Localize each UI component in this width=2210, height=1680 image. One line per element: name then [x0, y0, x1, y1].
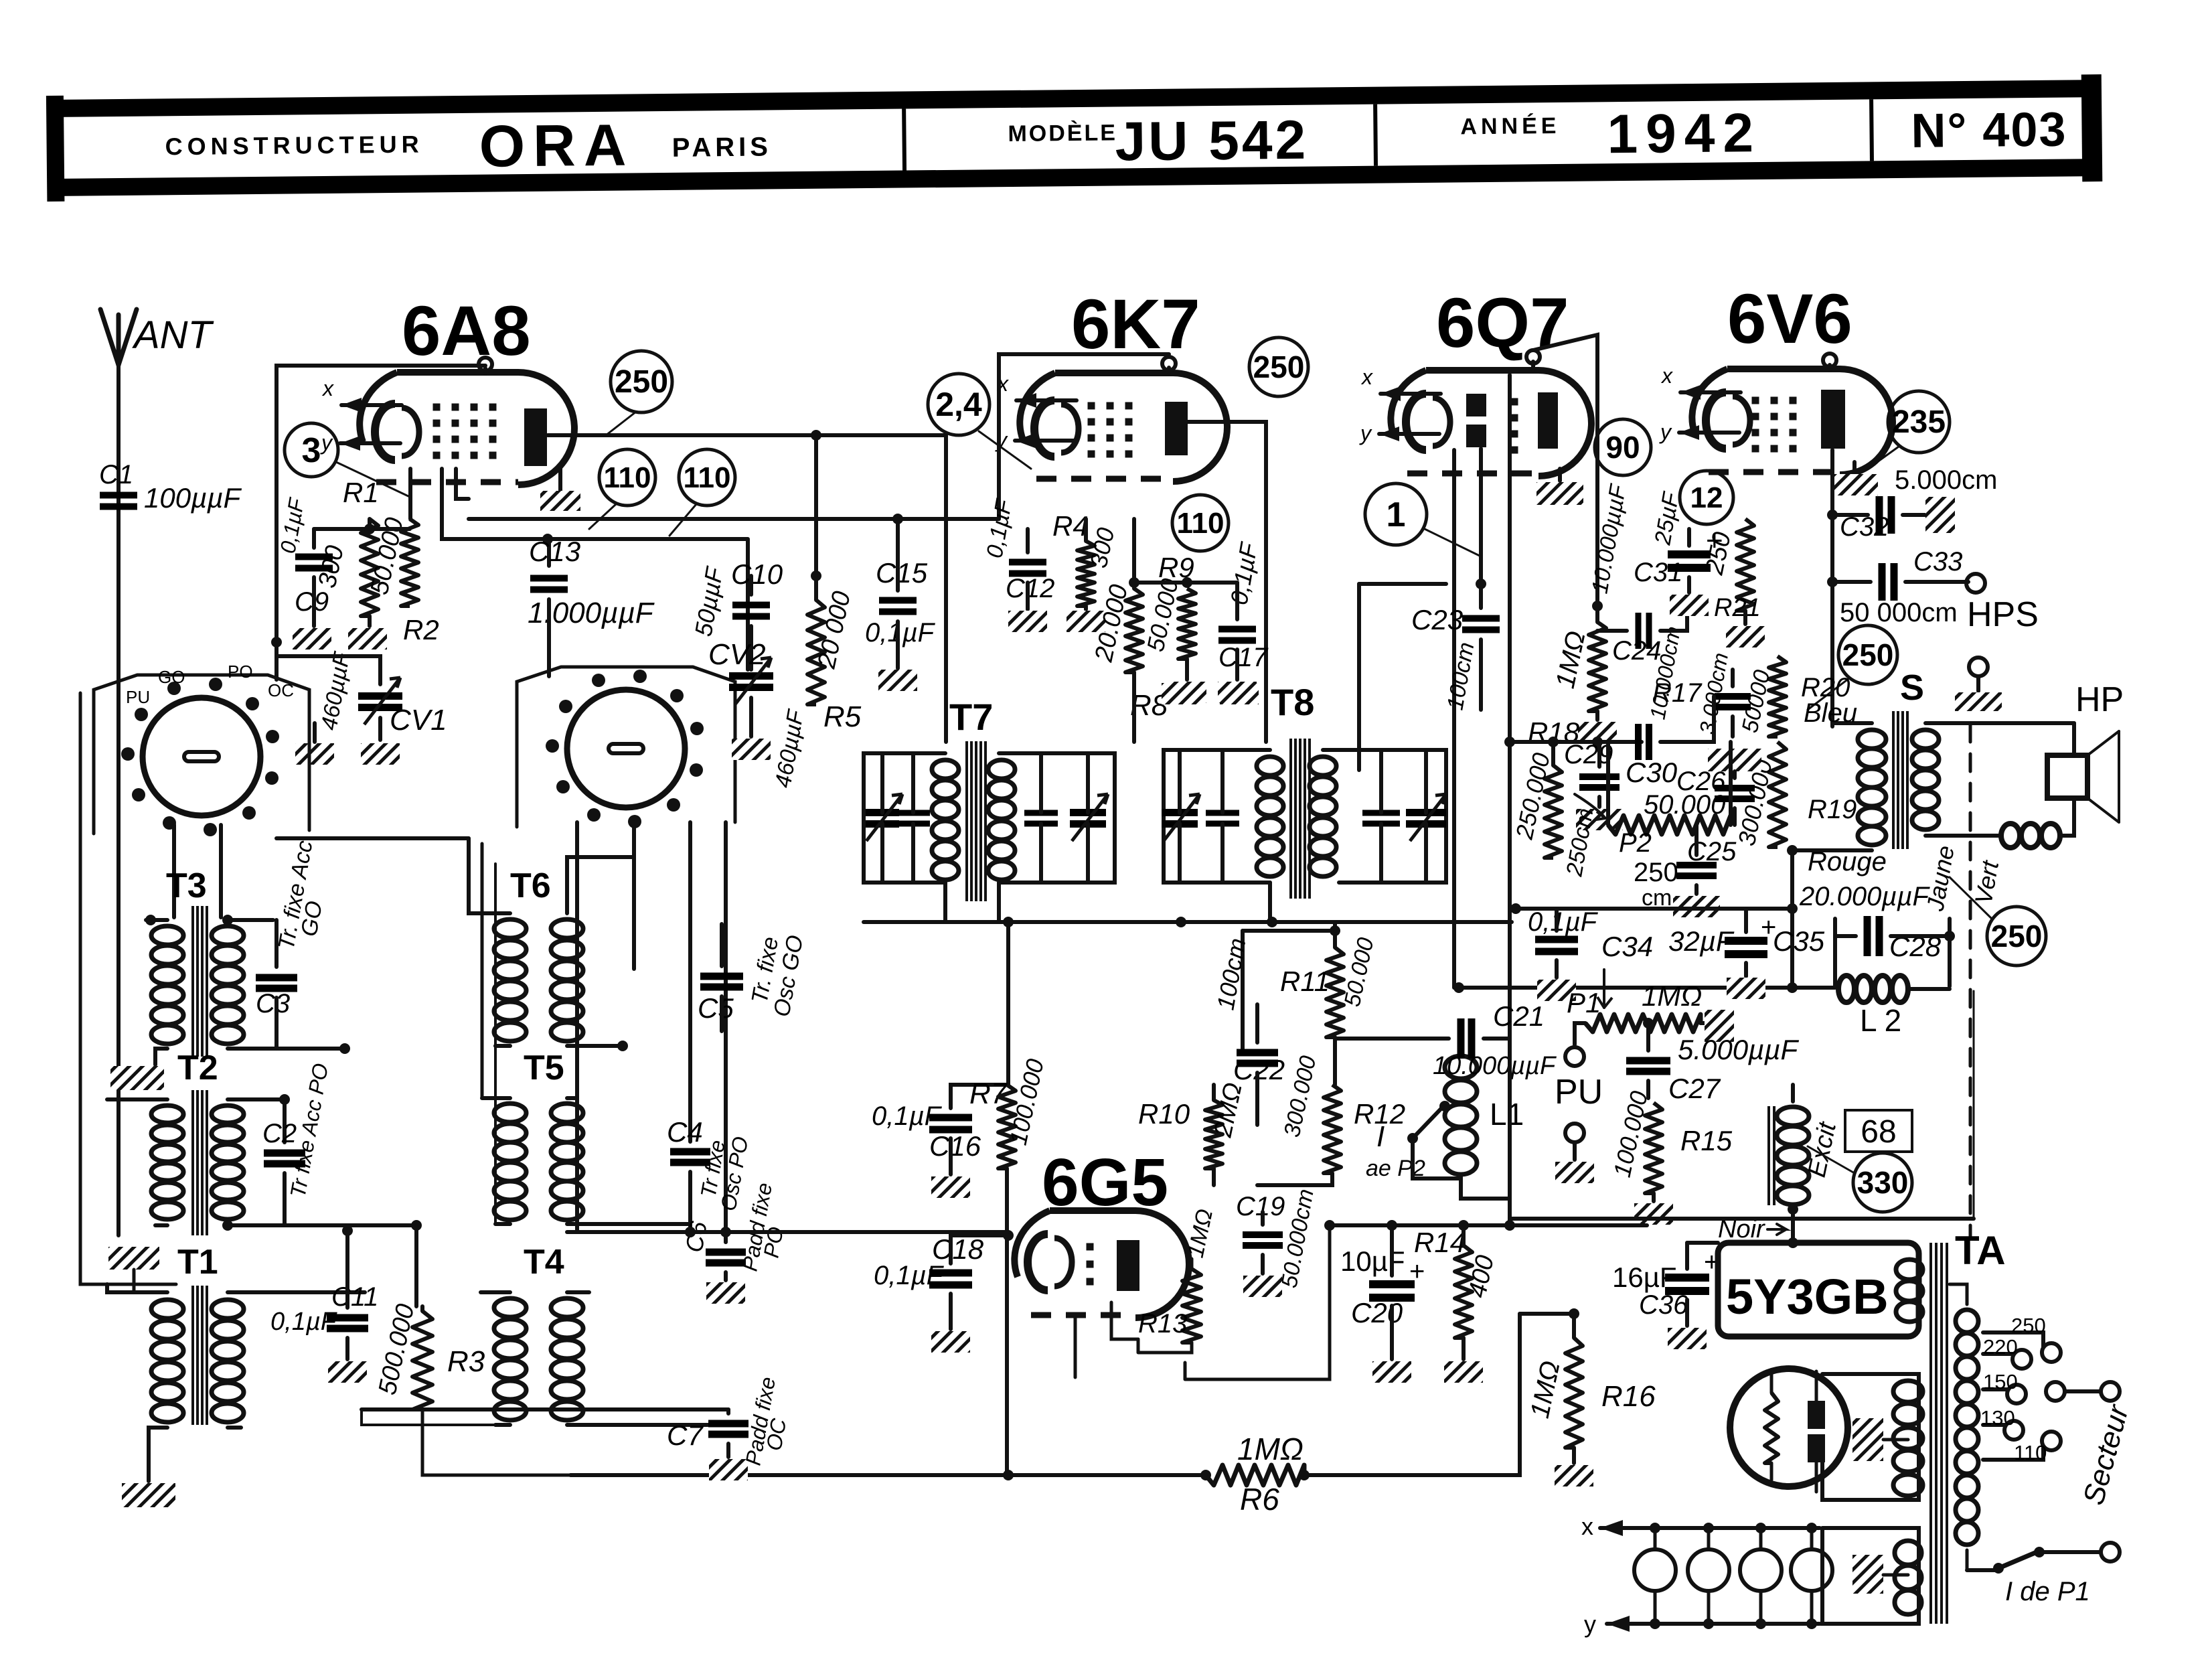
svg-text:CONSTRUCTEUR: CONSTRUCTEUR	[165, 131, 423, 161]
inductor L1	[1445, 1031, 1524, 1199]
svg-text:1: 1	[1387, 495, 1406, 534]
circled 250 at 6K7	[1249, 337, 1308, 396]
svg-text:OC: OC	[268, 680, 294, 700]
loudspeaker HP	[2001, 680, 2124, 848]
tube 6V6	[1659, 354, 1893, 475]
svg-text:C2: C2	[262, 1119, 297, 1148]
svg-text:3: 3	[302, 431, 321, 470]
svg-text:250: 250	[1842, 637, 1894, 672]
capacitor C6	[680, 1181, 788, 1304]
tube 6Q7 label	[1436, 284, 1569, 362]
ground 6Q7 cathode	[1536, 469, 1583, 505]
wire antenna to band switch	[116, 365, 121, 1235]
switch I de P1	[1967, 1543, 2120, 1606]
wire det rail	[1330, 1220, 1647, 1231]
svg-text:R11: R11	[1280, 966, 1330, 997]
wire 6K7 plate to T8	[1188, 422, 1266, 742]
svg-text:C5: C5	[698, 992, 734, 1024]
capacitor C9 0.1uF	[275, 495, 333, 617]
wire 6A8 top cap to left rail	[271, 366, 485, 680]
tube 6Q7	[1359, 350, 1591, 476]
tuning coil T3	[145, 866, 350, 1065]
ground 6V6 cathode	[1831, 462, 1997, 495]
svg-text:150: 150	[1983, 1370, 2018, 1393]
svg-text:250: 250	[2011, 1314, 2046, 1337]
svg-text:L 2: L 2	[1860, 1003, 1901, 1038]
resistor R14 400	[1414, 1225, 1500, 1383]
svg-text:R19: R19	[1808, 795, 1857, 824]
svg-text:C15: C15	[876, 557, 928, 589]
svg-text:220: 220	[1983, 1335, 2018, 1359]
svg-text:R13: R13	[1138, 1309, 1187, 1339]
wire IF bottom bus	[864, 883, 1512, 927]
dial lamp winding box	[1822, 1528, 1921, 1624]
svg-text:C35: C35	[1773, 925, 1825, 957]
resistor R7 100000	[969, 1057, 1049, 1473]
resistor R12 300000	[1257, 1053, 1405, 1185]
capacitor C26 50000	[1644, 749, 1761, 825]
svg-text:R3: R3	[447, 1345, 485, 1378]
svg-text:C1: C1	[99, 460, 133, 489]
svg-text:250: 250	[1634, 858, 1678, 887]
svg-text:R4: R4	[1052, 510, 1089, 542]
svg-text:MODÈLE: MODÈLE	[1008, 120, 1117, 147]
circled 250 right	[1950, 877, 2046, 966]
svg-text:6Q7: 6Q7	[1436, 284, 1569, 362]
circled 330	[1808, 1146, 1912, 1212]
svg-text:R21: R21	[1714, 594, 1761, 622]
svg-text:C31: C31	[1634, 558, 1682, 587]
terminal PU	[1555, 1073, 1603, 1183]
circled 250 under 6V6	[1808, 625, 1897, 710]
capacitor C23 100cm	[1411, 449, 1500, 712]
svg-text:T1: T1	[177, 1243, 218, 1282]
svg-text:R12: R12	[1354, 1098, 1405, 1130]
capacitor C15 0.1uF	[865, 519, 936, 691]
resistor R17 1Mohm	[1551, 481, 1632, 743]
wire 6G5 return	[1185, 1220, 1335, 1379]
capacitor C34 0.1uF	[1528, 907, 1653, 1001]
wires band switch 1 drops	[174, 825, 221, 917]
capacitor C33 50000cm	[1832, 547, 1985, 627]
svg-text:0,1µF: 0,1µF	[1528, 907, 1599, 937]
svg-text:C30: C30	[1626, 757, 1678, 788]
svg-text:10.000µµF: 10.000µµF	[1433, 1052, 1557, 1080]
svg-text:C12: C12	[1006, 574, 1054, 603]
capacitor C19 50000cm	[1236, 1187, 1319, 1297]
tube 6G5 label	[1042, 1145, 1168, 1220]
ground C9	[293, 577, 331, 650]
capacitor C3	[256, 838, 327, 1049]
wire left frame	[80, 693, 176, 1284]
circled 235	[1868, 391, 1950, 469]
svg-text:C20: C20	[1351, 1297, 1403, 1328]
oscillator coil T6	[469, 838, 634, 1051]
svg-text:R15: R15	[1680, 1125, 1733, 1156]
svg-text:1MΩ: 1MΩ	[1642, 980, 1702, 1012]
wire screen rail	[1510, 850, 1798, 988]
TA voltage taps	[1980, 1314, 2061, 1464]
wire 6Q7 top box	[1533, 335, 1597, 603]
svg-text:R1: R1	[343, 477, 379, 508]
svg-text:R2: R2	[403, 614, 439, 645]
svg-text:250: 250	[1991, 919, 2043, 953]
circled 12	[1680, 471, 1733, 524]
wire 6A8 plate to T7	[548, 430, 946, 742]
svg-text:250: 250	[1253, 350, 1305, 384]
IF transformer T8	[1162, 681, 1446, 899]
svg-text:C19: C19	[1236, 1192, 1285, 1221]
svg-text:250: 250	[615, 364, 668, 400]
svg-text:GO: GO	[158, 667, 185, 687]
capacitor C22 100cm	[1212, 936, 1285, 1125]
svg-text:C33: C33	[1913, 547, 1962, 577]
resistor R19 300000	[1733, 742, 1857, 848]
svg-text:I de P1: I de P1	[2005, 1577, 2090, 1606]
tuning coil T2	[107, 1049, 415, 1235]
svg-text:R5: R5	[823, 700, 862, 733]
mains terminals	[2046, 1382, 2120, 1401]
ground T1 bottom	[122, 1483, 175, 1507]
capacitor C12 0.1uF	[981, 496, 1054, 632]
svg-text:C23: C23	[1411, 604, 1463, 635]
capacitor C17 0.1uF	[1218, 540, 1269, 703]
svg-text:x: x	[1660, 364, 1673, 388]
capacitor C20 10uF	[1340, 1225, 1425, 1383]
svg-text:C3: C3	[256, 989, 290, 1018]
svg-text:+: +	[1761, 913, 1776, 942]
antenna ANT	[100, 309, 214, 365]
resistor R2 50.000	[366, 515, 439, 645]
resistor R6 1Mohm	[1200, 1432, 1310, 1517]
switch I de P2	[1366, 1101, 1461, 1181]
svg-text:20.000µµF: 20.000µµF	[1799, 882, 1930, 911]
potentiometer P2 250cm	[1561, 742, 1731, 911]
svg-text:y: y	[1659, 420, 1672, 444]
svg-text:HP: HP	[2075, 680, 2124, 719]
svg-text:68: 68	[1861, 1114, 1896, 1150]
svg-text:P2: P2	[1619, 828, 1652, 858]
svg-text:+: +	[1409, 1257, 1425, 1286]
resistor R4 300	[1052, 510, 1119, 632]
wires band switch 2 drops	[577, 822, 726, 1242]
capacitor C29	[1564, 740, 1623, 830]
svg-text:C24: C24	[1612, 636, 1661, 666]
svg-text:ORA: ORA	[479, 111, 635, 179]
wire osc mid rail	[567, 1227, 1008, 1237]
svg-text:y: y	[1584, 1610, 1596, 1638]
svg-text:T6: T6	[510, 866, 551, 905]
wire 6Q7 plate lead	[1508, 375, 1512, 1219]
wire 6A8 pin leads	[410, 469, 469, 519]
capacitor C25	[1673, 825, 1737, 917]
capacitor C27 5000uuF	[1626, 1018, 1800, 1104]
svg-text:TA: TA	[1955, 1228, 2006, 1273]
svg-text:PU: PU	[126, 687, 150, 707]
wire bottom bus	[570, 1314, 1520, 1480]
resistor R8 20000	[1090, 582, 1168, 742]
capacitor C10 50uuF	[690, 558, 783, 670]
svg-text:R14: R14	[1414, 1227, 1466, 1258]
oscillator coil T5	[482, 1049, 696, 1237]
wire Vert dashed	[1969, 724, 1972, 1239]
capacitor C31 25uF	[1634, 489, 1723, 616]
wire R11 top rail	[1243, 922, 1335, 1053]
resistor R15 100000	[1608, 1089, 1733, 1225]
antenna coil T1	[107, 1243, 365, 1481]
circled 3	[285, 423, 410, 497]
wire T7 secondary drop	[945, 883, 1014, 1085]
circled 90	[1595, 419, 1651, 475]
svg-text:T2: T2	[177, 1049, 218, 1087]
capacitor C16 0.1uF	[872, 1085, 1007, 1198]
svg-text:Rouge: Rouge	[1808, 847, 1887, 876]
capacitor C7 padding	[362, 1375, 791, 1480]
svg-text:C34: C34	[1601, 931, 1653, 962]
tube 6V6 label	[1727, 280, 1852, 358]
wire 6Q7 plate junction	[1504, 737, 1642, 747]
svg-text:C7: C7	[667, 1420, 704, 1451]
svg-text:S: S	[1900, 668, 1924, 708]
svg-text:110: 110	[2014, 1441, 2047, 1464]
capacitor C24 10000cm	[1597, 606, 1703, 721]
resistor R20 50000	[1737, 656, 1850, 737]
circled 1	[1365, 483, 1480, 556]
svg-text:T7: T7	[949, 696, 993, 738]
boxed 68	[1845, 1110, 1912, 1152]
svg-text:T8: T8	[1271, 681, 1314, 723]
power transformer TA	[1931, 1228, 2006, 1624]
svg-text:1942: 1942	[1607, 102, 1761, 165]
capacitor C30	[1626, 696, 1714, 788]
capacitor C13 1000uuF	[528, 536, 655, 676]
label 20000uuF	[1799, 882, 1930, 911]
capacitor C18 0.1uF	[874, 1230, 1014, 1353]
svg-text:CV2: CV2	[708, 638, 766, 671]
svg-text:1.000µµF: 1.000µµF	[528, 597, 655, 629]
svg-text:C13: C13	[529, 536, 580, 567]
svg-text:C21: C21	[1493, 1000, 1545, 1032]
svg-text:90: 90	[1605, 430, 1640, 465]
capacitor C5	[698, 924, 808, 1031]
svg-text:110: 110	[684, 461, 731, 494]
wire R1R2 top rail	[314, 519, 410, 534]
svg-text:PU: PU	[1555, 1073, 1603, 1112]
circled 250 at 6A8	[606, 351, 672, 435]
svg-text:5.000µµF: 5.000µµF	[1678, 1034, 1800, 1065]
svg-text:ANNÉE: ANNÉE	[1460, 113, 1560, 139]
capacitor C4	[667, 1116, 753, 1232]
svg-text:10µF: 10µF	[1340, 1245, 1405, 1277]
svg-text:P1: P1	[1567, 987, 1601, 1018]
svg-text:C29: C29	[1564, 740, 1613, 769]
wire osc frame	[277, 838, 495, 1224]
svg-text:T3: T3	[166, 866, 207, 905]
capacitor C36 16uF	[1612, 1243, 1719, 1349]
svg-text:x: x	[1360, 365, 1373, 389]
wire 6K7 box	[999, 354, 1169, 519]
circled 110 right	[669, 449, 735, 536]
svg-text:R16: R16	[1601, 1380, 1656, 1413]
tube 6K7 label	[1071, 285, 1200, 364]
circled 110 at 6K7	[1172, 495, 1229, 551]
title band CONSTRUCTEUR ORA PARIS / MODELE JU542 / ANNEE 1942 / N 403	[46, 74, 2102, 202]
svg-text:C17: C17	[1218, 643, 1269, 672]
label Secteur	[2077, 1400, 2135, 1508]
svg-text:50 000cm: 50 000cm	[1840, 598, 1958, 627]
tube 6A8 label	[402, 292, 531, 370]
HPS terminal	[1955, 595, 2039, 711]
svg-text:PARIS: PARIS	[672, 132, 772, 162]
oscillator coil T4	[481, 1243, 728, 1425]
capacitor 3000cm	[1694, 651, 1751, 737]
variable capacitor CV1 460uuF	[277, 650, 447, 765]
resistor R5 20000	[807, 435, 862, 733]
svg-text:6V6: 6V6	[1727, 280, 1852, 358]
svg-text:L1: L1	[1490, 1097, 1524, 1132]
label Noir	[1718, 1215, 1786, 1243]
svg-text:JU 542: JU 542	[1115, 110, 1308, 173]
filament winding box	[1822, 1374, 1923, 1500]
svg-text:C10: C10	[731, 558, 783, 590]
variable capacitor CV2 460uuF	[708, 638, 809, 789]
rectifier tube 5Y3	[1730, 1369, 1848, 1492]
svg-text:x: x	[1581, 1513, 1593, 1540]
svg-text:0,1µF: 0,1µF	[270, 1308, 337, 1336]
svg-text:110: 110	[604, 461, 651, 494]
wire audio box bottom	[1510, 1217, 1974, 1221]
wire right frame	[1973, 991, 1975, 1219]
svg-text:y: y	[1359, 421, 1372, 445]
wire 6Q7 grid box	[1359, 579, 1486, 770]
circled 2,4	[928, 374, 1031, 469]
resistor R11 50000	[1280, 925, 1378, 1085]
IF transformer T7	[864, 696, 1115, 901]
tube 6G5	[1014, 1211, 1189, 1377]
svg-text:5.000cm: 5.000cm	[1895, 465, 1997, 495]
svg-text:C36: C36	[1639, 1290, 1688, 1320]
svg-text:2,4: 2,4	[935, 386, 982, 423]
resistor R10 2Mohm	[1138, 1080, 1248, 1185]
svg-text:N° 403: N° 403	[1911, 103, 2067, 158]
resistor R18 250000	[1510, 716, 1580, 858]
wire to oscillator grid	[442, 469, 748, 670]
wire 6Q7 diode lead	[1452, 450, 1456, 988]
svg-text:130: 130	[1980, 1406, 2015, 1430]
svg-text:Bleu: Bleu	[1804, 698, 1857, 728]
svg-text:C27: C27	[1668, 1073, 1721, 1104]
capacitor C11 0.1uF	[270, 1225, 378, 1383]
svg-text:C11: C11	[331, 1282, 378, 1312]
svg-text:CV1: CV1	[390, 704, 447, 737]
svg-text:x: x	[321, 376, 334, 400]
svg-text:ANT: ANT	[132, 313, 214, 357]
capacitor C1 100uuF	[99, 460, 242, 514]
wire AVC rail	[1453, 982, 1835, 993]
svg-text:110: 110	[1177, 507, 1225, 540]
wire T2 bottom rail	[228, 1220, 422, 1306]
svg-text:1MΩ: 1MΩ	[1237, 1432, 1304, 1466]
svg-text:C16: C16	[929, 1130, 981, 1162]
band switch wafer 1	[94, 662, 309, 836]
svg-text:C18: C18	[932, 1233, 984, 1265]
resistor R3 500000	[374, 1302, 570, 1475]
pilot lamps	[1581, 1513, 1832, 1638]
ground T3	[110, 1066, 164, 1090]
inductor L2 with C28	[1835, 916, 1955, 1038]
svg-text:R10: R10	[1138, 1098, 1190, 1130]
svg-text:T5: T5	[524, 1049, 564, 1087]
capacitor C35 32uF	[1668, 909, 1825, 999]
rectifier 5Y3GB winding box	[1687, 1237, 1923, 1337]
svg-text:C9: C9	[295, 587, 329, 617]
resistor R16 1Mohm	[1520, 1308, 1656, 1486]
svg-text:6K7: 6K7	[1071, 285, 1200, 364]
svg-text:0,1µF: 0,1µF	[865, 618, 936, 647]
capacitor C2	[262, 1061, 333, 1225]
svg-text:PO: PO	[228, 662, 253, 682]
ground T1 left	[108, 1247, 167, 1292]
svg-text:12: 12	[1690, 481, 1723, 514]
svg-text:330: 330	[1857, 1165, 1909, 1200]
tube 6A8	[320, 358, 574, 485]
wire 110 heater rail	[469, 514, 999, 524]
output transformer S	[1787, 668, 2074, 913]
ground 6A8 cathode	[540, 469, 580, 511]
resistor R9 50000	[1141, 552, 1206, 703]
capacitor C32 and plate lead	[1827, 450, 1955, 727]
potentiometer P1 1Mohm	[1565, 970, 1734, 1066]
band switch wafer 2	[517, 667, 735, 828]
circled 110 left	[589, 449, 655, 529]
tube 6K7	[995, 357, 1227, 481]
svg-text:R6: R6	[1240, 1482, 1279, 1517]
svg-text:100µµF: 100µµF	[144, 482, 242, 514]
field coil Excit	[1769, 1085, 1842, 1243]
svg-text:5Y3GB: 5Y3GB	[1726, 1269, 1889, 1324]
svg-text:6A8: 6A8	[402, 292, 531, 370]
svg-text:235: 235	[1892, 404, 1946, 440]
wire 6K7 grid rail	[1129, 519, 1237, 589]
svg-text:T4: T4	[524, 1243, 564, 1282]
resistor R13 1Mohm	[1138, 1207, 1218, 1353]
resistor R21 250	[1701, 519, 1765, 647]
ground R1	[348, 616, 387, 650]
svg-text:C4: C4	[667, 1116, 703, 1148]
grounds above T8	[1162, 683, 1259, 704]
capacitor C21 10000uuF	[1335, 1000, 1557, 1225]
svg-text:HPS: HPS	[1967, 595, 2039, 634]
resistor R1 300	[313, 477, 379, 616]
